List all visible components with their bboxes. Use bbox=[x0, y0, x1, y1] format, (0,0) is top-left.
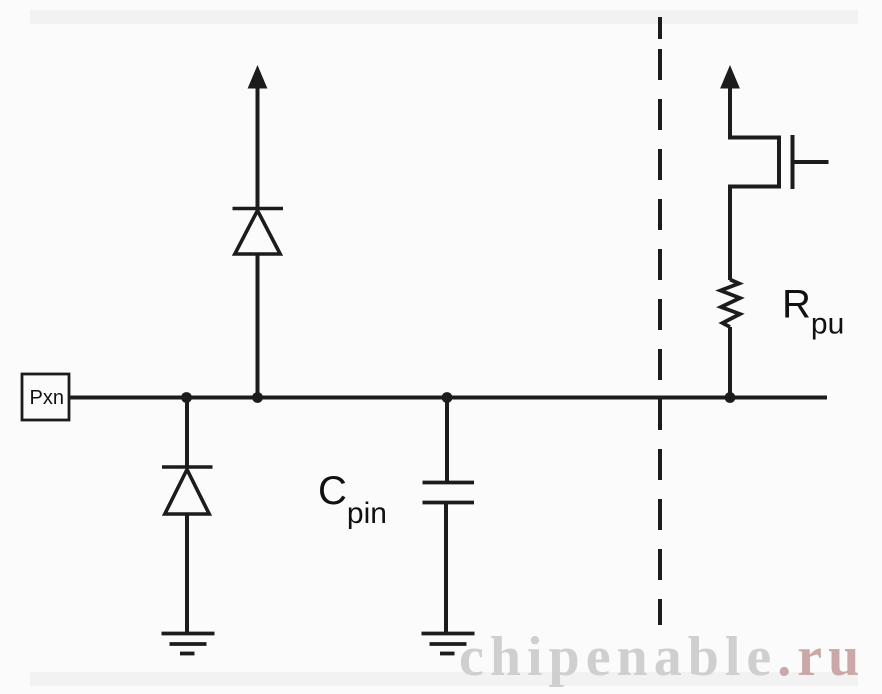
junction: D2 tap bbox=[181, 392, 192, 403]
faint top band bbox=[30, 10, 858, 24]
svg-text:chipenable.ru: chipenable.ru bbox=[459, 626, 865, 688]
junction: pull-up tap bbox=[725, 392, 736, 403]
chip boundary dashed line bbox=[658, 49, 662, 625]
capacitor Cpin : bottom plate bbox=[423, 501, 475, 505]
port box Pxn bbox=[22, 374, 69, 420]
junction: D1 tap bbox=[252, 392, 263, 403]
VCC arrow (ESD rail) bbox=[248, 65, 268, 89]
ground (D2) bbox=[162, 634, 215, 654]
diode D2 (ESD clamp to GND) : triangle bbox=[165, 470, 209, 515]
transistor channel plate bbox=[777, 136, 781, 189]
transistor (pull-up MOSFET) : source lead bbox=[728, 136, 779, 140]
wire: main horizontal pin net bbox=[69, 396, 827, 400]
transistor drain lead bbox=[728, 185, 779, 189]
wire: Cpin tap down bbox=[445, 398, 449, 483]
wire: VCC to transistor source bbox=[728, 86, 732, 138]
VCC arrow (pull-up rail) bbox=[720, 65, 740, 89]
junction: Cpin tap bbox=[442, 392, 453, 403]
wire: resistor to pin net bbox=[728, 327, 732, 398]
wire: D1 tap up bbox=[256, 255, 260, 398]
wire: D2 tap down bbox=[185, 398, 189, 468]
chip boundary dashed line : first dash bbox=[658, 17, 662, 39]
svg-text:Pxn: Pxn bbox=[30, 387, 64, 409]
wire: Cpin to ground bbox=[444, 503, 448, 634]
wire: transistor drain to resistor bbox=[728, 187, 732, 281]
transistor gate bar bbox=[791, 135, 795, 189]
wire: D2 anode to ground bbox=[185, 514, 189, 633]
faint bottom band bbox=[30, 672, 858, 686]
transistor gate lead bbox=[793, 160, 829, 164]
diode D1 cathode bar bbox=[233, 207, 284, 211]
diode D1 (ESD clamp to VCC) : triangle bbox=[235, 211, 280, 255]
resistor Rpu zigzag bbox=[721, 280, 741, 328]
wire: D1 cathode to VCC arrow bbox=[256, 86, 260, 209]
diode D2 cathode bar bbox=[162, 465, 213, 469]
ground (Cpin) bbox=[422, 634, 475, 654]
capacitor Cpin : top plate bbox=[423, 481, 475, 485]
